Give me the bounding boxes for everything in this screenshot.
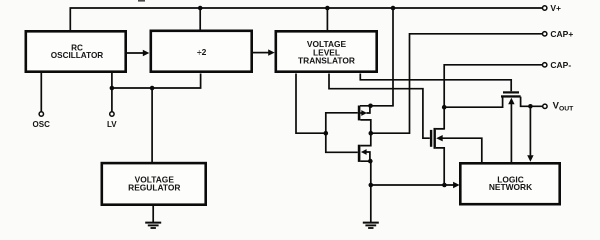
arrowhead ground node into logic network [453, 182, 460, 188]
wire translator to transfer switch gate [360, 74, 511, 92]
transistor Q2 arrow tail to source terminal [366, 152, 370, 161]
transistor Q1 P-channel switch body bar [358, 106, 361, 121]
cropped text remnant at top edge [138, 0, 145, 2]
node switch gates [324, 131, 329, 136]
wire output switch body to logic network [442, 138, 482, 163]
wire OSC pin from RC oscillator [40, 73, 42, 112]
svg-text:VOUT: VOUT [553, 101, 575, 113]
wire LV pin from RC oscillator [111, 73, 113, 112]
wire gate node to P-channel switch gate [326, 113, 358, 133]
block voltage level translator U3 [276, 31, 377, 71]
transistor Q1 source arrow [361, 110, 367, 116]
wire output switch source down to ground node [436, 148, 444, 185]
svg-text:NETWORK: NETWORK [489, 182, 532, 192]
svg-text:V+: V+ [550, 3, 561, 13]
arrowhead RC oscillator to divide-by-2 [143, 50, 150, 56]
wire voltage regulator ground stem [152, 206, 154, 223]
transistor Q1 arrow tail to source terminal [360, 106, 370, 113]
block logic network U5 [460, 163, 559, 204]
wire ground node to logic network (arrowed) [371, 184, 454, 186]
terminal V+ [543, 6, 547, 10]
transistor Q2 N-channel switch body bar [358, 145, 361, 162]
transistor Q3 output switch gate bar [430, 130, 432, 147]
node Q3 source / logic feed [442, 183, 447, 188]
wire V+ rail to divide-by-2 top [199, 8, 201, 31]
transistor Q3 drain to CAP- node (horizontal stub) [436, 128, 444, 130]
terminal CAP+ [543, 32, 547, 36]
wire RC oscillator to divide-by-2 (arrowed) [127, 52, 144, 54]
terminal CAP- [543, 63, 547, 67]
terminal VOUT [543, 104, 547, 108]
wire gate node to N-channel switch gate [326, 133, 358, 152]
node V+ rail / divide-by-2 [198, 6, 203, 11]
transistor Q4 body arrow pointing up [508, 98, 514, 105]
node Q2 source junction [368, 159, 373, 164]
wire V+ rail down to P-channel switch source [360, 8, 393, 106]
wire N-channel switch source to ground node [360, 161, 370, 185]
terminal LV [110, 112, 114, 116]
wire P-channel switch drain to midpoint node [360, 120, 370, 133]
node V+ rail / switch source [391, 6, 396, 11]
svg-text:CAP+: CAP+ [550, 29, 573, 39]
block divide-by-2 U2 [151, 31, 252, 72]
ground symbol below switches [363, 223, 379, 228]
transistor Q3 body arrow [436, 135, 443, 141]
wire logic network up to transfer switch (arrowed) [510, 103, 512, 163]
transistor Q2 source arrow [361, 149, 367, 155]
arrowhead VOUT node into logic network [527, 155, 533, 162]
wire CAP+ rail from switch midpoint node [371, 34, 543, 133]
wire N-channel switch drain to midpoint node [360, 133, 370, 145]
svg-text:OSC: OSC [33, 120, 51, 129]
svg-text:CAP-: CAP- [550, 60, 571, 70]
transistor Q4 transfer switch gate bar (horizontal) [503, 91, 519, 93]
node Q1 source junction [368, 104, 373, 109]
terminal OSC [39, 112, 43, 116]
node VOUT junction [528, 104, 533, 109]
node voltage regulator feed [150, 86, 155, 91]
wire V+ rail to voltage level translator top [326, 8, 328, 31]
transistor Q3 output switch channel bar [434, 128, 436, 149]
block RC oscillator U1 [26, 31, 126, 71]
wire ground node stem [370, 185, 372, 222]
node junction dots [110, 6, 533, 188]
block voltage regulator U4 [102, 163, 206, 205]
wire transfer switch to VOUT terminal [521, 97, 543, 107]
wire LV node down to voltage regulator [151, 88, 153, 163]
node CAP+ midpoint [369, 131, 374, 136]
svg-text:÷2: ÷2 [197, 47, 207, 57]
wire V+ rail [70, 8, 542, 31]
node CAP- junction [442, 105, 447, 110]
wire translator to output switch gate [329, 74, 430, 139]
wire LV node to divide-by-2 bottom [112, 74, 201, 89]
ground symbol below voltage regulator [145, 223, 161, 228]
arrowhead divide-by-2 to translator [268, 49, 275, 55]
node V+ rail / translator [325, 6, 330, 11]
node LV junction [110, 86, 115, 91]
svg-text:REGULATOR: REGULATOR [128, 183, 180, 193]
wire VOUT node down to logic network (arrowed) [529, 106, 531, 155]
svg-text:TRANSLATOR: TRANSLATOR [298, 56, 355, 66]
transistor Q4 transfer switch channel bar (horizontal) [501, 95, 521, 97]
node ground junction [369, 183, 374, 188]
wire translator to switch gates node [296, 74, 326, 134]
wire divide-by-2 to voltage level translator (arrowed) [253, 52, 269, 54]
svg-text:OSCILLATOR: OSCILLATOR [51, 51, 104, 60]
wire CAP- node to upper right transfer switch [444, 97, 502, 108]
wire CAP- rail to output switch drain [436, 65, 543, 129]
svg-text:LV: LV [107, 120, 117, 129]
